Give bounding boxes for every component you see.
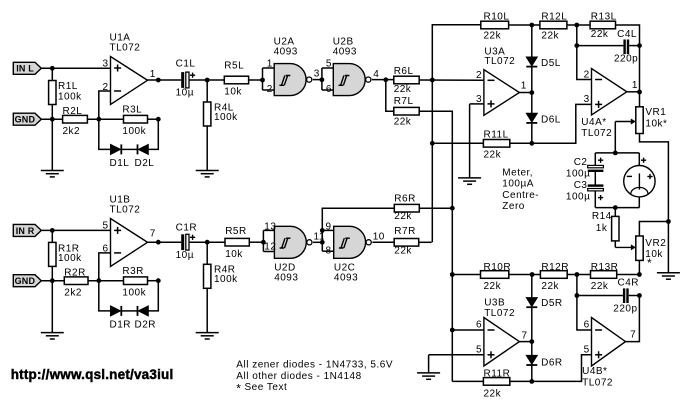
op-amp U1A xyxy=(111,57,148,105)
node junction U2A input bracket xyxy=(260,78,265,83)
node junction VR1 wiper / meter rail xyxy=(613,151,618,156)
svg-text:R1L: R1L xyxy=(58,81,78,92)
node junction D6R / R11R / U4B pin5 xyxy=(529,379,534,384)
node junction C1R / R4R xyxy=(205,240,210,245)
capacitor C4R xyxy=(576,275,578,296)
svg-text:Meter,: Meter, xyxy=(502,167,533,178)
svg-text:6: 6 xyxy=(584,319,590,330)
node B feedback junction xyxy=(96,278,101,283)
svg-text:C4L: C4L xyxy=(617,29,637,40)
svg-text:R10R: R10R xyxy=(484,262,512,273)
svg-text:100k: 100k xyxy=(214,112,238,123)
svg-text:GND: GND xyxy=(15,276,36,286)
svg-text:4: 4 xyxy=(373,69,379,80)
svg-text:10k: 10k xyxy=(224,87,242,98)
svg-text:R6L: R6L xyxy=(394,66,414,77)
node junction R12R / R13R / C4R xyxy=(575,272,580,277)
resistor R12R xyxy=(540,271,567,279)
svg-text:6: 6 xyxy=(326,84,332,95)
svg-text:GND: GND xyxy=(15,115,36,125)
svg-text:R13L: R13L xyxy=(591,12,617,23)
svg-text:2k2: 2k2 xyxy=(64,287,82,298)
svg-text:U4B*: U4B* xyxy=(582,366,607,377)
resistor R5L xyxy=(224,76,248,84)
resistor R7R xyxy=(394,239,419,247)
resistor R4L xyxy=(206,80,208,103)
node junction GND / R1R bottom xyxy=(50,278,55,283)
zener diode D6R xyxy=(531,342,533,382)
svg-text:4093: 4093 xyxy=(334,273,358,284)
node junction C1L / R4L xyxy=(205,78,210,83)
svg-text:22k: 22k xyxy=(591,281,609,292)
wire R2L to R3L xyxy=(87,118,123,120)
wire R7L to right vertical net xyxy=(419,111,452,381)
diode D2L xyxy=(137,144,139,154)
svg-text:R5R: R5R xyxy=(225,226,247,237)
wire R7R up to vertical net xyxy=(419,241,432,243)
wire C3 to bottom rail xyxy=(594,191,596,208)
op-amp U3A xyxy=(484,70,520,116)
VR2 wiper arrow from R14 xyxy=(614,241,616,248)
wire R3R to output node xyxy=(148,280,159,282)
svg-text:C2: C2 xyxy=(574,157,588,168)
svg-text:4093: 4093 xyxy=(274,273,298,284)
svg-text:R13R: R13R xyxy=(591,262,619,273)
wire GND to R2L xyxy=(41,118,62,120)
svg-text:R12R: R12R xyxy=(541,262,569,273)
wire R5L to U2A inputs xyxy=(249,79,263,81)
resistor R6R xyxy=(394,204,419,212)
wire R10L to R12L xyxy=(509,24,540,26)
potentiometer VR1 xyxy=(636,107,643,134)
node junction U3A out / D5L / D6L xyxy=(529,90,534,95)
resistor R12L xyxy=(540,21,567,29)
resistor R3R xyxy=(124,277,148,285)
resistor R13L xyxy=(590,21,615,29)
svg-text:22k: 22k xyxy=(541,31,559,42)
svg-text:D5L: D5L xyxy=(541,58,561,69)
svg-text:4093: 4093 xyxy=(333,46,357,57)
svg-text:1: 1 xyxy=(632,80,638,91)
input tag IN L xyxy=(13,62,41,74)
svg-text:10k*: 10k* xyxy=(645,119,667,130)
svg-text:10: 10 xyxy=(373,232,385,243)
wire C1L to R5L xyxy=(189,79,224,81)
svg-text:100µ: 100µ xyxy=(566,192,590,203)
resistor R1R xyxy=(51,230,53,243)
svg-text:R6R: R6R xyxy=(394,193,416,204)
svg-text:R5L: R5L xyxy=(224,61,244,72)
svg-text:5: 5 xyxy=(326,59,332,70)
svg-text:Centre-: Centre- xyxy=(502,190,539,201)
svg-text:TL072: TL072 xyxy=(484,56,515,67)
svg-text:8: 8 xyxy=(325,246,331,257)
svg-text:D1R: D1R xyxy=(110,319,132,330)
svg-text:*: * xyxy=(647,256,652,270)
svg-text:22k: 22k xyxy=(394,84,412,95)
svg-text:TL072: TL072 xyxy=(582,378,613,389)
svg-text:6: 6 xyxy=(102,243,108,254)
node junction IN L / R1L xyxy=(50,66,55,71)
resistor R2R xyxy=(64,277,88,285)
node junction R3R / output xyxy=(156,278,161,283)
wire U2B input bracket xyxy=(321,68,323,90)
wire R6R to right vertical xyxy=(419,207,452,209)
node junction U1B output / R3R branch xyxy=(156,240,161,245)
svg-text:R11L: R11L xyxy=(484,129,509,140)
wire R12R to R13R xyxy=(567,274,590,276)
resistor R13R xyxy=(591,271,617,279)
zener diode D6L xyxy=(531,93,533,144)
svg-text:C3: C3 xyxy=(574,180,588,191)
svg-text:3: 3 xyxy=(584,94,590,105)
resistor R11L xyxy=(432,142,483,144)
svg-text:D1L: D1L xyxy=(110,158,130,169)
wire meter bottom rail xyxy=(595,207,639,209)
node junction U3B out / D5R / D6R xyxy=(529,339,534,344)
capacitor C1L xyxy=(181,72,184,88)
node junction U4A output / VR1 xyxy=(627,91,640,93)
svg-text:U3B: U3B xyxy=(484,298,505,309)
svg-text:1: 1 xyxy=(267,59,273,70)
VR1 wiper arrow xyxy=(615,121,632,123)
wire U3B output xyxy=(519,341,531,343)
wire U1B output to C1R xyxy=(148,241,182,243)
node junction C4R right xyxy=(637,293,642,298)
ground (input divider right) xyxy=(51,281,53,333)
wire IN R to U1B pin 5 xyxy=(41,229,110,231)
wire U2B out to R6L xyxy=(372,79,394,81)
node junction U2C pin 9 xyxy=(320,228,325,233)
capacitor C2 xyxy=(594,153,596,166)
wire D2L to output branch xyxy=(148,119,158,149)
svg-text:7: 7 xyxy=(522,331,528,342)
svg-text:100µ: 100µ xyxy=(566,169,590,180)
resistor R11R xyxy=(452,380,483,382)
wire U2A out to U2B in xyxy=(313,79,322,81)
capacitor C4L xyxy=(576,25,578,46)
wire R13L to U4A output net xyxy=(616,25,640,107)
svg-text:1: 1 xyxy=(521,81,527,92)
svg-text:R7L: R7L xyxy=(394,96,414,107)
svg-text:TL072: TL072 xyxy=(484,308,515,319)
node junction GND / R1L bottom xyxy=(50,117,55,122)
wire R3L to output node xyxy=(148,118,159,120)
wire diode branch left xyxy=(99,119,111,149)
svg-text:9: 9 xyxy=(325,221,331,232)
svg-text:R3R: R3R xyxy=(122,266,144,277)
svg-text:22k: 22k xyxy=(541,281,559,292)
zener diode D5R xyxy=(531,275,533,342)
svg-text:1: 1 xyxy=(150,69,156,80)
svg-text:IN L: IN L xyxy=(16,64,34,74)
svg-text:22k: 22k xyxy=(484,389,502,399)
svg-text:10k: 10k xyxy=(225,249,243,260)
wire to U1B pin 6 xyxy=(99,253,111,281)
ground (R4R) xyxy=(196,332,219,334)
wire C2 to C3 xyxy=(594,172,596,185)
node junction U2D out xyxy=(320,240,325,245)
svg-text:D5R: D5R xyxy=(541,298,563,309)
wire IN L to U1A pin 3 xyxy=(41,67,110,69)
svg-text:10µ: 10µ xyxy=(176,250,194,261)
wire R13R to U4B output net xyxy=(617,274,640,276)
wire to U1A pin 2 xyxy=(99,91,111,119)
op-amp U4A xyxy=(592,69,627,115)
diode D1R xyxy=(111,306,121,316)
svg-text:TL072: TL072 xyxy=(581,128,612,139)
resistor R2L xyxy=(63,115,88,123)
svg-text:C1L: C1L xyxy=(176,58,196,69)
svg-text:7: 7 xyxy=(630,329,636,340)
node junction R10L / D5L xyxy=(529,23,534,28)
wire U1A output to C1L xyxy=(148,79,182,81)
wire D1R to D2R xyxy=(122,310,138,312)
wire U4B output up to R13R node xyxy=(626,296,640,342)
svg-text:1k: 1k xyxy=(596,223,608,234)
wire C4R left to U4B pin 6 xyxy=(577,296,592,331)
svg-text:VR2: VR2 xyxy=(645,238,666,249)
op-amp U4B xyxy=(592,318,626,367)
wire meter top rail xyxy=(595,152,639,154)
svg-text:7: 7 xyxy=(150,229,156,240)
svg-text:http://www.qsl.net/va3iul: http://www.qsl.net/va3iul xyxy=(11,367,174,382)
svg-text:2k2: 2k2 xyxy=(63,126,81,137)
wire R10R to R12R xyxy=(509,274,541,276)
svg-text:*: * xyxy=(236,381,241,395)
wire U3B pin 5 to ground xyxy=(429,354,484,356)
svg-text:D6R: D6R xyxy=(541,357,563,368)
svg-text:12: 12 xyxy=(264,242,276,253)
wire C4L left to U4A pin 2 xyxy=(577,46,592,80)
nand gate U2C 4093 schmitt xyxy=(334,226,366,258)
wire R11L right to U4A pin 3 xyxy=(510,104,592,143)
wire U2C out to R7R xyxy=(372,241,394,243)
svg-text:4093: 4093 xyxy=(274,46,298,57)
svg-text:100µA: 100µA xyxy=(502,179,534,190)
node junction ground net / VR2 top xyxy=(666,219,671,224)
wire VR1 bottom to ground net xyxy=(640,134,669,273)
svg-text:R10L: R10L xyxy=(484,12,510,23)
wire R5R to U2D inputs xyxy=(249,241,263,243)
input tag GND (left) xyxy=(13,113,41,125)
svg-text:5: 5 xyxy=(102,221,108,232)
svg-text:D6L: D6L xyxy=(541,115,561,126)
zener diode D5L xyxy=(531,25,533,93)
resistor R1L xyxy=(51,68,53,81)
wire diode branch left (R) xyxy=(99,281,111,311)
svg-text:D2L: D2L xyxy=(135,158,155,169)
svg-text:2: 2 xyxy=(584,69,590,80)
resistor R10R xyxy=(452,274,480,276)
wire U2D out to U2C in xyxy=(313,241,322,243)
svg-text:220p: 220p xyxy=(613,303,637,314)
svg-text:22k: 22k xyxy=(394,211,412,222)
wire U3A output xyxy=(519,92,531,94)
svg-text:U4A*: U4A* xyxy=(581,117,606,128)
wire R6L to U3A pin2 net xyxy=(419,79,484,81)
nand gate U2D 4093 schmitt xyxy=(274,226,306,258)
node junction C4L right xyxy=(637,43,642,48)
wire GND to R2R xyxy=(41,280,64,282)
wire D1L to D2L xyxy=(122,148,138,150)
node junction R3L / output xyxy=(156,117,161,122)
wire U3A pin3 to ground xyxy=(470,103,484,105)
wire VR2 bottom to R13R node xyxy=(638,260,640,274)
svg-text:100k: 100k xyxy=(58,92,82,103)
svg-text:TL072: TL072 xyxy=(110,205,141,216)
svg-text:R3L: R3L xyxy=(122,105,142,116)
svg-text:IN R: IN R xyxy=(16,226,35,236)
svg-text:22k: 22k xyxy=(394,117,412,128)
wire D2R to output branch xyxy=(148,281,158,311)
input tag IN R xyxy=(13,224,41,236)
svg-text:D2R: D2R xyxy=(135,319,157,330)
node junction R12L / R13L / C4L xyxy=(574,23,579,28)
node junction R6R / vertical xyxy=(450,206,455,211)
svg-text:R14: R14 xyxy=(592,211,612,222)
node junction U2B input bracket xyxy=(320,77,325,82)
wire R11R right to U4B pin 5 xyxy=(510,355,592,382)
svg-text:R2R: R2R xyxy=(64,268,86,279)
input tag GND (right) xyxy=(13,275,41,287)
resistor R3L xyxy=(124,115,148,123)
svg-text:100k: 100k xyxy=(58,253,82,264)
resistor R5R xyxy=(225,238,249,246)
svg-text:All other diodes - 1N4148: All other diodes - 1N4148 xyxy=(236,371,361,382)
resistor R4R xyxy=(206,242,208,265)
wire U2C input bracket and feedback to R6R xyxy=(322,208,394,251)
svg-text:R7R: R7R xyxy=(394,226,416,237)
resistor R10L xyxy=(481,21,509,29)
nand gate U2A 4093 schmitt xyxy=(274,64,306,96)
svg-text:R2L: R2L xyxy=(63,106,83,117)
wire long vertical net (U2B output feedback) xyxy=(432,25,481,243)
svg-text:3: 3 xyxy=(102,59,108,70)
svg-text:5: 5 xyxy=(476,344,482,355)
op-amp U1B xyxy=(111,219,148,267)
svg-text:Zero: Zero xyxy=(502,201,525,212)
diode D1L xyxy=(111,144,121,154)
resistor R14 xyxy=(614,208,616,217)
node junction U2D input bracket xyxy=(261,240,266,245)
svg-text:R12L: R12L xyxy=(541,12,567,23)
node junction pin6 on vertical xyxy=(450,328,455,333)
node junction bottom rail / R14 xyxy=(613,205,618,210)
svg-text:2: 2 xyxy=(267,84,273,95)
nand gate U2B 4093 schmitt xyxy=(333,64,365,96)
svg-text:VR1: VR1 xyxy=(645,107,666,118)
ground (R4L) xyxy=(196,170,219,172)
svg-text:2: 2 xyxy=(476,70,482,81)
svg-text:22k: 22k xyxy=(484,149,502,160)
svg-text:TL072: TL072 xyxy=(110,43,141,54)
ground (U3A pin 3) xyxy=(458,177,481,179)
node junction U2B output / R6L / R7L xyxy=(383,77,388,82)
capacitor C1R xyxy=(181,234,184,250)
ground (VR1/VR2 net) xyxy=(657,272,680,274)
svg-text:R11R: R11R xyxy=(484,369,511,380)
capacitor C3 xyxy=(588,184,604,186)
resistor R7L xyxy=(386,80,394,111)
svg-text:6: 6 xyxy=(476,319,482,330)
resistor R6L xyxy=(394,76,419,84)
svg-text:22k: 22k xyxy=(591,29,609,40)
svg-text:All zener diodes - 1N4733, 5.6: All zener diodes - 1N4733, 5.6V xyxy=(236,360,393,371)
svg-text:See Text: See Text xyxy=(245,382,288,393)
diode D2R xyxy=(137,306,139,316)
ground (input divider left) xyxy=(51,119,53,170)
svg-text:2: 2 xyxy=(102,82,108,93)
node junction R13R / VR2 / C4R right xyxy=(637,272,642,277)
node junction R10R / D5R xyxy=(530,272,535,277)
wire U2A input bracket xyxy=(262,68,264,90)
node A feedback junction xyxy=(96,117,101,122)
wire R12L to R13L xyxy=(567,24,590,26)
svg-text:22k: 22k xyxy=(394,246,412,257)
potentiometer VR2 xyxy=(636,236,643,260)
svg-text:22k: 22k xyxy=(484,31,502,42)
ground (U3B pin 5) xyxy=(417,372,440,374)
node junction R10R on vertical xyxy=(450,272,455,277)
node junction R11L left on vertical net xyxy=(430,141,435,146)
wire U2D input bracket xyxy=(262,230,264,251)
op-amp U3B xyxy=(484,318,520,367)
node junction U1A output / R3L branch xyxy=(156,78,161,83)
svg-text:C4R: C4R xyxy=(618,278,640,289)
svg-text:C1R: C1R xyxy=(176,223,198,234)
node junction R6L / vertical net xyxy=(430,78,435,83)
svg-text:22k: 22k xyxy=(484,281,502,292)
svg-text:10µ: 10µ xyxy=(176,88,194,99)
wire R2R to R3R xyxy=(88,280,124,282)
svg-text:5: 5 xyxy=(584,344,590,355)
meter M1 100uA centre-zero xyxy=(638,153,640,166)
node junction D6L / R11L right xyxy=(529,141,534,146)
svg-text:100k: 100k xyxy=(214,274,238,285)
svg-text:100k: 100k xyxy=(122,287,146,298)
svg-text:3: 3 xyxy=(314,69,320,80)
svg-text:220p: 220p xyxy=(614,54,638,65)
node junction IN R / R1R xyxy=(50,228,55,233)
wire U3B pin 6 from vertical xyxy=(452,329,484,331)
svg-text:13: 13 xyxy=(264,221,276,232)
wire C1R to R5R xyxy=(189,241,225,243)
svg-text:100k: 100k xyxy=(122,126,146,137)
